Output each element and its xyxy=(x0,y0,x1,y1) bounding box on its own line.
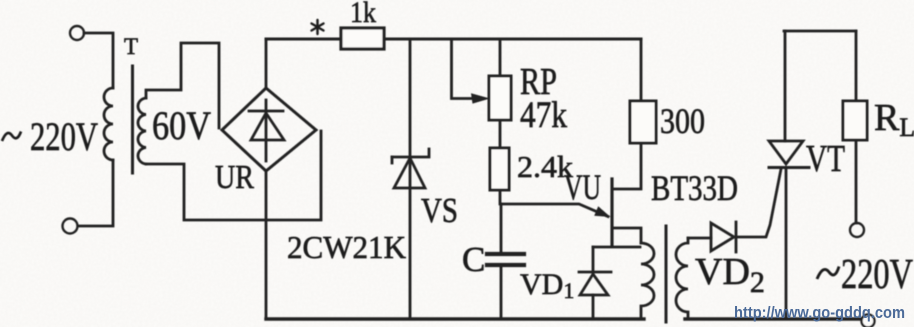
pulse transformer core xyxy=(665,226,668,322)
wire top right xyxy=(784,30,856,33)
wire rail to RP xyxy=(499,39,502,76)
terminal right upper xyxy=(850,223,864,237)
wire bridge bottom to bottom rail xyxy=(265,171,268,319)
svg-text:220V: 220V xyxy=(30,114,98,159)
resistor 1k xyxy=(341,28,384,49)
zener diode VS lead xyxy=(409,39,412,319)
wire 2.4k to node E and capacitor xyxy=(500,190,501,254)
label * asterisk xyxy=(312,20,324,34)
svg-text:T: T xyxy=(124,34,138,59)
wire wiper to rail xyxy=(452,39,473,99)
capacitor C xyxy=(487,254,524,265)
svg-text:1k: 1k xyxy=(350,0,376,29)
pulse transformer primary winding xyxy=(641,243,654,319)
bridge inner diode xyxy=(249,100,284,161)
terminal top-left xyxy=(70,26,84,40)
wire to RL xyxy=(855,31,858,101)
svg-text:2CW21K: 2CW21K xyxy=(287,229,406,265)
resistor 2.4k xyxy=(490,148,509,190)
svg-text:BT33D: BT33D xyxy=(651,168,738,208)
wire terminal to transformer primary top xyxy=(84,33,113,88)
transformer T secondary winding 60V xyxy=(138,98,146,164)
wire capacitor to bottom rail xyxy=(500,265,503,319)
potentiometer RP xyxy=(489,76,511,120)
pulse transformer secondary winding xyxy=(676,238,688,319)
UJT VU base2 lead xyxy=(612,143,641,189)
wire primary bottom to terminal xyxy=(78,160,113,226)
svg-text:http://www.go-gddq.com: http://www.go-gddq.com xyxy=(734,303,905,322)
terminal bottom right xyxy=(862,315,875,327)
svg-text:47k: 47k xyxy=(520,95,567,136)
transformer T primary winding xyxy=(104,88,113,160)
wire RP to 2.4k xyxy=(499,120,502,148)
diode VD1 xyxy=(579,247,611,319)
transformer T core xyxy=(131,66,134,173)
wire RL to terminal xyxy=(855,140,858,223)
svg-text:VU: VU xyxy=(564,167,601,207)
label ~220V right tilde xyxy=(817,267,839,280)
resistor RL xyxy=(843,101,867,140)
wiper arrow xyxy=(471,93,490,103)
svg-text:300: 300 xyxy=(660,101,705,141)
UJT VU base1 lead xyxy=(612,228,641,243)
wire VD2 to gate xyxy=(736,169,781,237)
thyristor VT xyxy=(769,141,809,168)
svg-text:C: C xyxy=(462,240,485,279)
bottom rail right segment xyxy=(685,317,861,320)
wire secondary bottom to bridge right vertex xyxy=(146,131,321,220)
svg-text:220V: 220V xyxy=(841,252,913,298)
thyristor VT anode wire xyxy=(784,31,787,141)
resistor 300 xyxy=(630,101,656,143)
svg-text:VT: VT xyxy=(806,138,845,180)
wire secondary top to bridge left vertex xyxy=(146,43,219,128)
label ~220V left tilde xyxy=(2,132,21,142)
diode VD1 top wire xyxy=(593,246,640,249)
terminal bottom-left xyxy=(63,219,78,234)
wire rail down to 300 xyxy=(640,39,643,101)
svg-text:60V: 60V xyxy=(152,103,211,148)
UJT VU bar xyxy=(610,179,613,245)
wire bridge top vertex to rail xyxy=(265,39,268,88)
UJT VU emitter arrowhead xyxy=(594,206,610,217)
svg-text:UR: UR xyxy=(215,159,254,196)
bottom rail left segment xyxy=(266,317,644,320)
svg-text:VS: VS xyxy=(421,191,458,230)
thyristor VT cathode wire xyxy=(785,168,788,320)
wire secondary to VD2 xyxy=(688,237,711,240)
diode VD2 xyxy=(711,222,736,252)
UJT VU emitter wire xyxy=(501,204,608,217)
wire top rail xyxy=(266,38,641,41)
zener diode VS symbol xyxy=(392,149,429,188)
bridge rectifier UR diamond xyxy=(222,88,316,171)
